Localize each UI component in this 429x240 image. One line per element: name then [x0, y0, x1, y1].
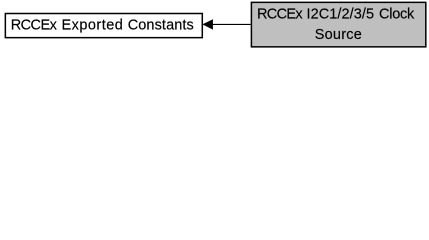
svg-text:Constants: Constants [128, 17, 194, 33]
svg-text:RCCEx: RCCEx [11, 17, 58, 33]
wire: dependency arrow [203, 20, 251, 29]
svg-text:Exported: Exported [62, 17, 124, 33]
node: RCCEx Exported Constants (box) [5, 14, 202, 38]
svg-text:Source: Source [315, 27, 362, 43]
svg-text:Clock: Clock [379, 7, 415, 23]
svg-text:RCCEx: RCCEx [257, 7, 303, 23]
node: RCCEx I2C1/2/3/5 Clock Source (highlighted box) [251, 2, 425, 47]
svg-text:I2C1/2/3/5: I2C1/2/3/5 [307, 7, 375, 23]
